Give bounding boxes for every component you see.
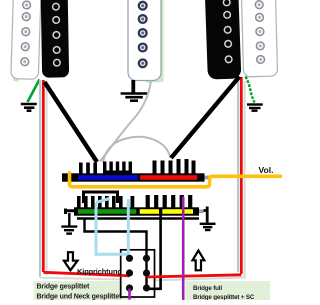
neck humbucker black coil poles	[53, 3, 61, 66]
wire cyan from green switch lug down	[96, 203, 128, 258]
wire neck red shadow horizontal	[40, 278, 128, 280]
neck humbucker black coil	[41, 0, 70, 78]
arrow down Kipprichtung	[64, 252, 78, 270]
wire neck black diagonal to switch	[45, 82, 98, 162]
wire bridge green squiggle to ground	[246, 77, 255, 103]
ground middle pickup	[121, 94, 148, 101]
middle single coil pole centers	[141, 4, 144, 65]
label box right options	[186, 281, 271, 300]
ground tone switch left	[61, 213, 77, 234]
wire neck red down left side	[42, 80, 45, 272]
neck humbucker white coil pole screws	[21, 1, 31, 66]
selector switch upper lugs right group	[153, 159, 196, 174]
tone switch left bracket	[65, 209, 75, 215]
selector switch upper lugs left group	[79, 162, 132, 175]
tone switch frame rail	[77, 217, 199, 219]
wire yellow volume output	[70, 173, 281, 187]
bridge humbucker white coil pole centers	[258, 3, 262, 61]
DPDT lugs	[126, 255, 150, 292]
wire middle gray curve to switch	[100, 81, 151, 162]
arrow up right	[193, 251, 205, 271]
bridge humbucker black coil	[205, 0, 242, 80]
wire neck white conductor	[39, 80, 41, 277]
tone switch lower lugs left group	[77, 196, 123, 208]
label Vol.	[259, 165, 274, 175]
middle single coil poles	[139, 2, 147, 67]
tone switch lower body	[74, 207, 199, 215]
svg-text:Bridge und Neck gesplittet: Bridge und Neck gesplittet	[37, 294, 123, 300]
label Bridge full	[193, 285, 222, 292]
wire gray arc jumper on selector	[103, 137, 171, 163]
svg-text:Bridge gesplittet: Bridge gesplittet	[37, 283, 90, 290]
tone switch lower lugs right group	[131, 195, 193, 208]
tone switch right gray stub	[199, 210, 204, 214]
svg-text:Bridge gesplittet + SC: Bridge gesplittet + SC	[193, 294, 255, 300]
neck humbucker white coil pole centers	[23, 4, 28, 64]
DPDT mini switch body	[121, 250, 155, 297]
label Bridge gesplittet + SC	[193, 294, 255, 301]
wire bridge white conductor	[237, 77, 239, 272]
wire black from yellow separator to DPDT bottom right	[148, 208, 161, 289]
wire black rail to DPDT top right	[85, 219, 147, 289]
svg-text:Kipprichtung: Kipprichtung	[77, 267, 122, 276]
neck humbucker white coil shadow	[12, 72, 20, 82]
svg-text:Vol.: Vol.	[259, 165, 274, 175]
ground tone switch right	[200, 224, 216, 230]
wire bridge red down right side	[240, 77, 243, 274]
wire purple from yellow switch lug to bottom	[182, 197, 185, 300]
wire neck green to ground	[28, 80, 40, 103]
svg-text:Bridge full: Bridge full	[193, 285, 222, 292]
ground bridge pickup	[247, 105, 263, 111]
selector switch upper body	[62, 173, 212, 181]
wire bridge red horizontal from DPDT middle right	[147, 275, 242, 277]
cyan jumper between lugs	[96, 199, 110, 203]
ground neck pickup	[21, 104, 37, 111]
label Kipprichtung	[77, 267, 122, 276]
wire cyan from lug to DPDT top left	[127, 199, 130, 259]
wire neck red shadow	[46, 84, 48, 275]
wire neck red horizontal to DPDT middle left	[43, 272, 129, 276]
bridge humbucker white coil poles	[255, 1, 264, 64]
wire purple from DPDT bottom left lug	[128, 289, 131, 300]
ground middle pickup stem	[131, 80, 135, 93]
tone switch black jumper box on left lugs	[84, 192, 118, 203]
wire bridge red shadow	[150, 81, 245, 281]
tone switch right bracket	[204, 207, 208, 223]
bridge humbucker black coil poles	[223, 0, 232, 63]
middle single coil shadow	[146, 0, 164, 83]
neck humbucker white coil	[11, 0, 41, 79]
label Bridge gesplittet	[37, 283, 90, 290]
label Bridge und Neck gesplittet	[37, 294, 123, 301]
bridge humbucker white coil	[241, 0, 277, 77]
label box left options	[34, 281, 137, 300]
wire bridge black diagonal to switch	[171, 77, 240, 159]
middle single coil body	[128, 0, 161, 81]
